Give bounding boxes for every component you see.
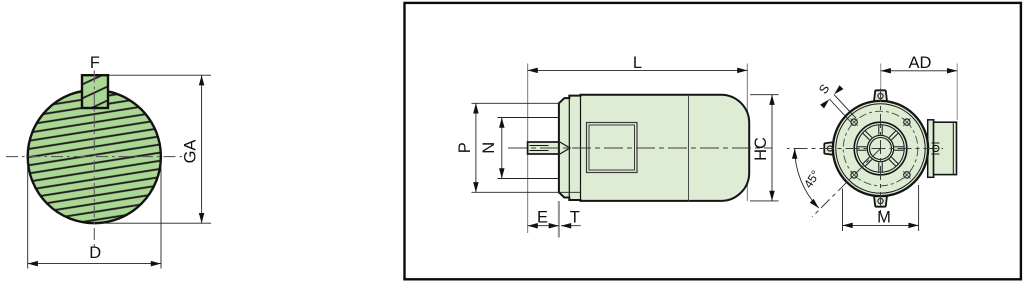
end view: inner rim circle: [836, 104, 925, 193]
side view: centerline: [508, 147, 772, 149]
end view: 45 deg diagonal centerline: [812, 149, 881, 218]
N bottom extension line: [498, 178, 559, 180]
end view: terminal box body: [934, 122, 957, 174]
svg-text:GA: GA: [182, 140, 200, 164]
svg-text:F: F: [90, 54, 100, 72]
key F (hatched rectangle): [82, 75, 108, 108]
side view: terminal box square outer: [587, 123, 638, 173]
svg-text:E: E: [537, 209, 548, 227]
svg-text:P: P: [456, 142, 474, 153]
GA top extension line: [108, 74, 211, 76]
end view: horizontal centerline: [787, 148, 943, 150]
svg-text:T: T: [570, 209, 580, 227]
HC bottom extension line: [750, 200, 779, 202]
shaft circle (hatched): [28, 90, 161, 223]
M left extension: [842, 189, 844, 232]
E dimension line: [528, 225, 559, 227]
L dimension line: [528, 69, 748, 71]
GA dimension line: [201, 75, 203, 223]
M dimension line: [843, 224, 919, 226]
end view: spokes: [857, 125, 904, 172]
end view: top lug: [874, 90, 888, 103]
frame border: [405, 3, 1021, 279]
end view: fan cover inner circle: [857, 125, 904, 172]
AD dimension line: [881, 70, 958, 72]
end view: bolt circle (dash-dot): [843, 111, 918, 186]
end view: terminal box cover seam: [952, 122, 954, 174]
45 degree arc: [795, 149, 819, 209]
end view: fan cover outer circle: [854, 122, 907, 175]
end view: bottom lug: [874, 194, 888, 207]
bolt hole center marks: [850, 118, 910, 178]
P dimension line: [475, 103, 477, 192]
side view: motor body outline: [559, 95, 749, 201]
P top extension line: [472, 102, 559, 104]
T dimension line: [561, 225, 581, 227]
cable gland on terminal box: [933, 145, 939, 151]
shaft cross-section: centerline horizontal: [6, 156, 185, 158]
svg-text:S: S: [816, 82, 832, 97]
end view: outer circle: [833, 101, 928, 196]
side view: body rear seam line: [688, 95, 690, 201]
M right extension: [918, 185, 920, 231]
side view: L left extension line (gray): [527, 64, 529, 234]
svg-text:D: D: [89, 244, 101, 262]
side view: body front face line: [580, 96, 582, 200]
end view: terminal box flange: [928, 120, 934, 178]
end view: left lug: [824, 142, 837, 156]
side view: shaft thread lines: [530, 145, 549, 147]
side view: flange face extension line (thick gray): [558, 201, 560, 238]
svg-text:L: L: [633, 54, 642, 72]
svg-text:N: N: [480, 142, 498, 154]
HC top extension line: [750, 94, 779, 96]
AD left extension: [880, 64, 882, 90]
side view: L right extension line (gray): [746, 64, 748, 202]
shaft cross-section: centerline vertical: [93, 71, 95, 252]
P bottom extension line: [472, 191, 581, 193]
end view: hub outer circle: [867, 135, 893, 161]
end view: bolt holes: [851, 119, 910, 178]
D left extension line: [27, 160, 29, 269]
side view: terminal box square inner: [589, 125, 635, 170]
HC dimension line: [771, 95, 773, 201]
AD right extension: [956, 64, 958, 121]
D dimension line: [28, 263, 161, 265]
N dimension line: [501, 118, 503, 179]
S arrows: [832, 85, 843, 96]
end view: hub inner circle: [870, 138, 892, 160]
side view: shaft cone: [560, 142, 570, 154]
svg-text:HC: HC: [752, 137, 770, 161]
end view: vertical centerline: [880, 88, 882, 212]
side view: shaft: [528, 142, 559, 154]
svg-text:M: M: [877, 209, 891, 227]
svg-text:45°: 45°: [801, 168, 823, 191]
D right extension line: [160, 160, 162, 269]
side view: flange seam line: [568, 98, 570, 197]
GA bottom extension line: [97, 222, 211, 224]
N top extension line: [498, 117, 559, 119]
svg-text:AD: AD: [909, 54, 932, 72]
S extension lines: [834, 95, 856, 119]
